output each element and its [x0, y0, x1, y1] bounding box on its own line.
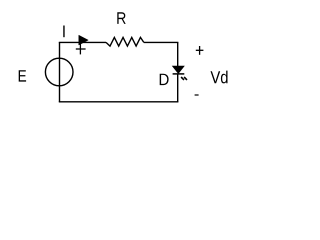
diode D triangle (anode)	[173, 66, 184, 73]
label D	[160, 74, 169, 85]
current arrowhead on top wire	[79, 35, 88, 45]
wire: top horizontal left segment	[59, 41, 106, 43]
wire: right vertical lower (from diode cathode)	[177, 74, 179, 102]
wire: right vertical upper (to diode anode)	[177, 42, 179, 67]
minus sign (Vd polarity -)	[195, 94, 199, 96]
resistor R zigzag	[106, 37, 144, 46]
label E (source name)	[19, 70, 26, 81]
wire: top horizontal right segment	[144, 41, 179, 43]
plus sign (Vd polarity +)	[196, 49, 204, 51]
voltage source E (circle)	[45, 58, 73, 86]
label R	[117, 12, 125, 24]
diode emission tick 1	[181, 77, 184, 80]
diode D cathode bar	[173, 73, 185, 75]
label I (current)	[63, 26, 65, 38]
label Vd (diode voltage)	[211, 71, 228, 84]
plus sign of source E	[76, 48, 86, 50]
diode emission tick 2	[184, 77, 187, 80]
wire: left vertical through source	[59, 42, 61, 101]
wire: bottom horizontal	[59, 101, 179, 103]
